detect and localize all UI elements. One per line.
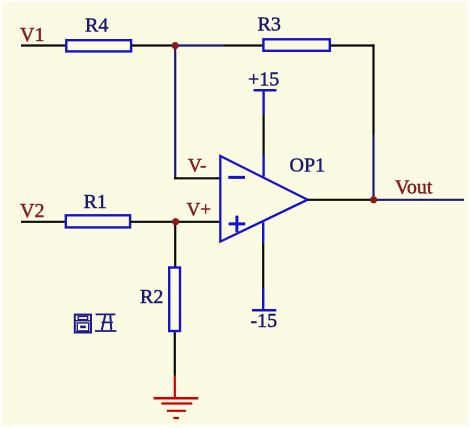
svg-text:V+: V+ [187, 200, 211, 221]
glyph 圖 [75, 315, 91, 333]
pin +V wire (black part) [263, 114, 265, 155]
wire junction B to op-amp V+ [176, 221, 221, 223]
svg-text:+15: +15 [248, 68, 279, 90]
wire R3 to right corner [330, 44, 375, 46]
wire inverting input horizontal [174, 177, 220, 179]
pin -V wire (black part) [262, 243, 264, 288]
wire R2 to ground (black part) [174, 332, 176, 375]
power -15 [252, 288, 276, 310]
svg-text:R2: R2 [140, 286, 163, 308]
wire junction A to R3 (black part) [224, 44, 263, 46]
glyph 五 [96, 313, 116, 315]
junction A [172, 42, 179, 49]
svg-text:-15: -15 [251, 310, 278, 332]
wire junction B down to R2 [174, 222, 176, 267]
resistor R4 [66, 40, 131, 51]
svg-text:R4: R4 [85, 14, 108, 36]
wire inverting input vertical (navy) [174, 46, 176, 180]
pin -V stub (blue part) [262, 222, 264, 243]
resistor R3 [263, 39, 329, 51]
svg-text:R1: R1 [84, 191, 107, 213]
pin +V stub (blue part) [262, 155, 264, 177]
svg-text:Vout: Vout [395, 177, 433, 199]
wire junction A to R3 (navy part) [175, 44, 224, 46]
wire junction C to Vout [374, 199, 464, 201]
figure caption 圖五 (drawn glyphs) [75, 314, 117, 332]
svg-text:V2: V2 [20, 200, 44, 222]
wire R1 to junction B [130, 221, 176, 223]
svg-text:R3: R3 [258, 13, 281, 35]
wire R4 to junction A [131, 44, 175, 46]
wire V2 to R1 [21, 221, 66, 223]
power +15 [254, 90, 277, 114]
junction C [370, 196, 377, 203]
resistor R1 [66, 215, 130, 227]
resistor R2 [169, 268, 180, 332]
wire right vertical lower (navy) [372, 135, 374, 200]
op-amp OP1 [220, 156, 307, 242]
svg-text:OP1: OP1 [290, 154, 326, 176]
svg-text:V1: V1 [20, 24, 44, 46]
junction B [172, 218, 179, 225]
svg-text:V-: V- [188, 155, 206, 176]
ground [154, 376, 199, 419]
wire op-amp output to junction C [308, 199, 374, 201]
wire V1 to R4 [21, 44, 66, 46]
wire right vertical upper (black) [372, 44, 374, 135]
